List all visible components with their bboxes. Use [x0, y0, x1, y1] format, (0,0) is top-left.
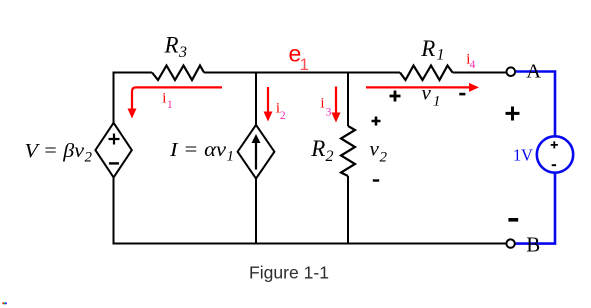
polarity plus (source, large) [506, 107, 520, 121]
wire blue from node A to source top [515, 72, 555, 137]
current arrow i4 label [466, 51, 475, 71]
label + v2 - beside R2 [370, 117, 388, 181]
svg-text:v: v [422, 81, 432, 105]
voltage source 1V [513, 136, 573, 172]
svg-text:1: 1 [167, 99, 173, 111]
dependent voltage source V = beta v2 [25, 123, 132, 178]
svg-text:1: 1 [227, 149, 235, 165]
wire middle vertical lower (current source branch) [255, 179, 257, 245]
current arrow i3 [320, 87, 340, 123]
node e1 label [289, 41, 309, 75]
svg-text:2: 2 [380, 150, 388, 166]
label + v1 - under R1 [390, 81, 466, 110]
svg-text:B: B [526, 233, 540, 257]
dependent current source I = alpha v1 [169, 125, 275, 179]
wire R2 branch vertical upper [347, 72, 349, 127]
wire top-middle horizontal [204, 72, 400, 74]
svg-text:1: 1 [433, 94, 441, 110]
svg-text:i: i [162, 91, 166, 107]
wire top-right horizontal [453, 72, 507, 74]
svg-text:Figure 1-1: Figure 1-1 [249, 263, 329, 283]
svg-text:2: 2 [326, 148, 334, 165]
current arrow i2 [264, 87, 286, 122]
svg-text:V: V [521, 145, 533, 164]
svg-text:2: 2 [85, 150, 93, 166]
voltage arrow v1 (red, under R1) [366, 83, 479, 92]
svg-text:3: 3 [178, 44, 187, 61]
svg-text:R: R [164, 33, 179, 58]
svg-text:i: i [320, 96, 324, 112]
svg-text:4: 4 [470, 59, 476, 71]
resistor R2 [310, 126, 355, 176]
svg-text:1: 1 [300, 55, 309, 74]
wire left vertical lower [113, 177, 115, 244]
resistor R1 [400, 36, 453, 80]
svg-text:I = αv: I = αv [169, 139, 226, 161]
svg-text:1: 1 [437, 47, 445, 64]
wire top-left horizontal [113, 72, 153, 74]
wire R2 branch vertical lower [347, 176, 349, 245]
artifact rgb dots bottom-left [2, 302, 7, 304]
polarity minus (source, large) [508, 218, 518, 222]
current arrow i1 [128, 87, 223, 118]
svg-text:A: A [526, 61, 541, 83]
svg-text:3: 3 [326, 107, 332, 119]
svg-text:1: 1 [513, 145, 521, 164]
wire middle vertical upper (current source branch) [255, 72, 257, 126]
wire left vertical upper [113, 72, 115, 124]
wire blue from source bottom to node B [515, 173, 555, 244]
svg-text:2: 2 [280, 110, 286, 122]
resistor R3 [152, 33, 204, 81]
node B terminal [506, 233, 540, 257]
svg-text:R: R [420, 36, 435, 61]
svg-text:v: v [370, 137, 380, 161]
wire bottom horizontal [113, 243, 507, 245]
svg-text:V = βv: V = βv [25, 140, 85, 162]
node A terminal [507, 61, 542, 83]
svg-text:R: R [310, 136, 325, 161]
